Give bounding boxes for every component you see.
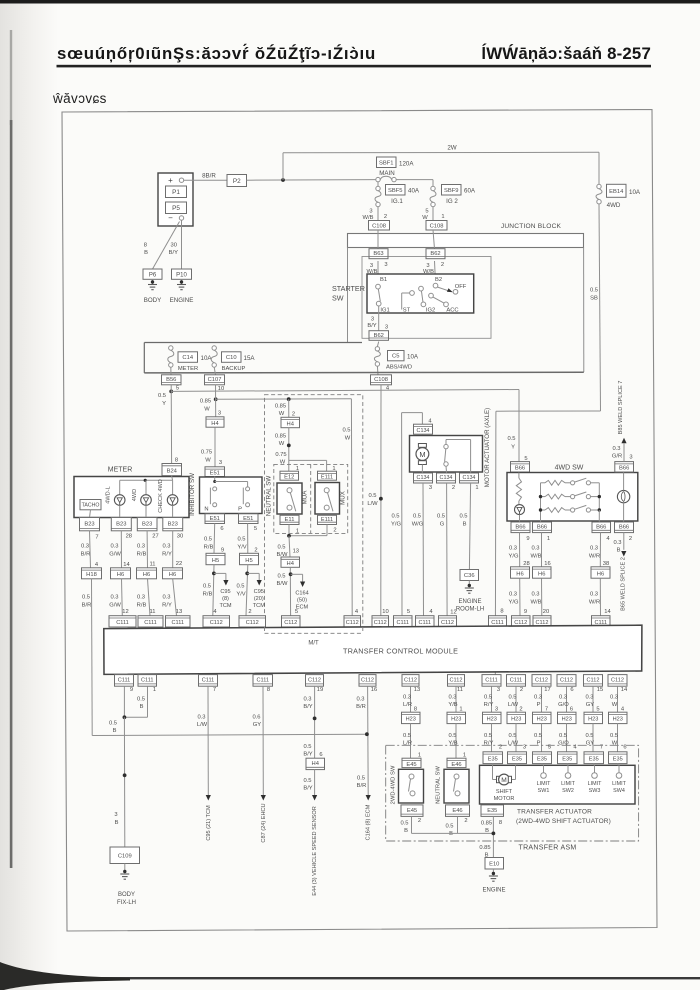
svg-text:15A: 15A [244, 355, 256, 362]
connector E46 (pin 2) [446, 805, 470, 817]
svg-text:0.5: 0.5 [137, 697, 145, 703]
svg-text:R/B: R/B [137, 603, 147, 609]
svg-text:ENGINE: ENGINE [482, 888, 505, 894]
svg-text:H5: H5 [212, 558, 219, 564]
svg-text:C111: C111 [116, 620, 129, 626]
ground merge wires 0.85 B [411, 816, 413, 833]
connector C108 (bottom, ABS/4WD feed) [371, 375, 392, 385]
svg-text:NEUTRAL SW: NEUTRAL SW [265, 476, 272, 516]
svg-text:C164: C164 [295, 591, 308, 597]
svg-text:R/Y: R/Y [162, 603, 172, 609]
connector E35 (pin 8, motor return) [481, 805, 504, 817]
svg-text:C112: C112 [611, 678, 624, 684]
svg-text:FIX-LH: FIX-LH [117, 900, 136, 906]
svg-text:7: 7 [213, 687, 216, 693]
wire 0.5 P below H23 [541, 724, 543, 752]
svg-text:3: 3 [371, 317, 374, 323]
svg-text:5: 5 [407, 609, 410, 615]
wire C111-9 / C111-1 ground join 0.5 B [123, 686, 125, 717]
svg-text:(20): (20) [254, 596, 264, 602]
neutral switch box [277, 483, 302, 514]
node junction at P2/2W riser [281, 178, 285, 182]
svg-text:0.5: 0.5 [413, 514, 421, 520]
svg-text:0.5: 0.5 [109, 721, 117, 727]
node branch to ECM [289, 572, 293, 576]
svg-text:B23: B23 [168, 521, 178, 527]
svg-text:W: W [279, 441, 285, 447]
svg-text:2: 2 [629, 536, 632, 542]
connector C134 (pin 3) [414, 473, 433, 483]
svg-text:16: 16 [544, 561, 550, 567]
svg-text:15: 15 [597, 687, 603, 693]
svg-text:30: 30 [177, 534, 183, 540]
svg-text:E45: E45 [406, 762, 416, 768]
wire B66-1 0.3 W/B [541, 533, 543, 567]
svg-text:SW1: SW1 [538, 788, 550, 794]
ground ENGINE ROOM-LH [468, 581, 470, 586]
wire H5 to C112-4 0.5 R/B [213, 565, 214, 616]
svg-text:20: 20 [543, 609, 549, 615]
svg-text:C112: C112 [346, 620, 359, 626]
svg-text:5: 5 [425, 209, 428, 215]
TCM top connector row [109, 616, 136, 627]
svg-text:2: 2 [452, 485, 455, 491]
svg-text:3: 3 [369, 209, 372, 215]
svg-text:E46: E46 [451, 762, 461, 768]
svg-text:10A: 10A [201, 355, 213, 362]
svg-text:2: 2 [418, 818, 421, 824]
wire B66-9 0.3 Y/G [519, 533, 521, 567]
ground ENGINE (transfer) [492, 869, 494, 873]
svg-text:0.85: 0.85 [479, 845, 490, 851]
svg-text:B: B [144, 250, 148, 256]
svg-text:LIMIT: LIMIT [537, 781, 551, 787]
transfer control module box [104, 625, 642, 674]
wire down to 4WD SW B66 pin5, 0.5 Y [518, 390, 520, 462]
svg-text:4WD SW: 4WD SW [555, 465, 584, 472]
inhibitor internal bus [214, 477, 216, 482]
wire H5 to C112-2 0.5 Y/V [246, 565, 248, 616]
connector H23 (7) [533, 712, 552, 723]
svg-text:IG.1: IG.1 [391, 198, 403, 205]
connector H23 (1) [447, 712, 466, 723]
svg-text:E35: E35 [589, 757, 599, 763]
svg-text:38: 38 [603, 561, 609, 567]
svg-text:6: 6 [570, 687, 573, 693]
wire riser to 2W line [282, 153, 284, 180]
svg-text:0.5: 0.5 [303, 778, 311, 784]
svg-text:11: 11 [149, 562, 155, 568]
svg-text:0.5: 0.5 [277, 545, 285, 551]
wire B63 to starter B1 [377, 261, 379, 284]
svg-text:sœuúņőŗ0ıũnŞs:ăɔɔvŕ́ ŏŹūŹţĩ: sœuúņőŗ0ıũnŞs:ăɔɔvŕ́ ŏŹūŹţĩɔ-ıŹıɔ̀ıu [57, 43, 376, 63]
svg-text:TACHO: TACHO [82, 503, 100, 509]
wire 0.3 L/R to H23 [410, 686, 412, 712]
svg-text:E45: E45 [407, 808, 417, 814]
svg-text:ENGINE: ENGINE [170, 297, 194, 304]
svg-text:H23: H23 [562, 717, 572, 723]
svg-text:9: 9 [526, 536, 529, 542]
wire SBF1 to SBF9 column [396, 179, 433, 181]
connector C108 (right, IG.2 feed) [426, 221, 447, 231]
svg-text:8: 8 [499, 820, 502, 826]
connector B23 x4 [80, 518, 100, 531]
svg-text:0.5: 0.5 [303, 744, 311, 750]
connector E45 (pin 2) [401, 805, 423, 817]
fuse C10 15A BACKUP [212, 346, 216, 350]
connector P6 [143, 269, 162, 279]
svg-text:C109: C109 [118, 853, 132, 859]
svg-text:ĺWẂāņăɔ:šaáň 8-257: ĺWẂāņăɔ:šaáň 8-257 [481, 43, 651, 63]
connector H23 (3) [483, 712, 502, 723]
svg-text:B/R: B/R [357, 783, 367, 789]
svg-text:(2WD-4WD SHIFT ACTUATOR): (2WD-4WD SHIFT ACTUATOR) [516, 818, 611, 825]
svg-text:C111: C111 [418, 620, 431, 626]
svg-text:H23: H23 [588, 717, 598, 723]
svg-text:C10: C10 [226, 355, 237, 361]
svg-text:11: 11 [457, 687, 463, 693]
svg-text:W: W [612, 702, 618, 708]
svg-text:1: 1 [418, 753, 421, 759]
svg-text:M/T: M/T [308, 641, 319, 647]
wire C134-1 0.5 B to C36 [469, 483, 470, 570]
svg-text:4WD-L: 4WD-L [106, 486, 112, 503]
svg-text:B85 WELD SPLICE 7: B85 WELD SPLICE 7 [618, 381, 624, 435]
svg-text:C112: C112 [361, 678, 374, 684]
lamp 4WD [141, 495, 152, 506]
svg-text:0.5: 0.5 [342, 428, 350, 434]
wire battery- diagonal to P6, 8 B [153, 222, 180, 270]
svg-text:H6: H6 [538, 571, 545, 577]
wire 0.3 GY to H23 [592, 686, 594, 712]
svg-text:0.3: 0.3 [531, 592, 539, 598]
limit switches SW1-SW4 [543, 765, 545, 772]
svg-text:1: 1 [153, 687, 156, 693]
svg-text:W/B: W/B [531, 554, 542, 560]
meter box [74, 477, 189, 518]
svg-text:5: 5 [548, 745, 551, 751]
svg-text:B: B [617, 548, 621, 554]
svg-text:G/O: G/O [558, 702, 569, 708]
transfer actuator box [480, 765, 636, 804]
svg-text:1: 1 [459, 707, 462, 713]
svg-text:0.3: 0.3 [590, 546, 598, 552]
svg-text:W/B: W/B [531, 600, 542, 606]
connector B66 (pin 2) [615, 522, 634, 533]
wire down 0.5 B/W to H4 [289, 536, 290, 557]
svg-text:8: 8 [267, 687, 270, 693]
svg-text:SB: SB [590, 296, 598, 302]
svg-text:0.5: 0.5 [237, 537, 245, 543]
connector H23 (6) [558, 712, 577, 723]
svg-text:0.5: 0.5 [610, 733, 618, 739]
fuse C14 10A METER [169, 346, 173, 350]
actuator switch [445, 440, 447, 445]
svg-text:ACC: ACC [446, 308, 458, 314]
svg-text:W: W [204, 407, 210, 413]
svg-text:SBF1: SBF1 [379, 160, 394, 166]
svg-text:0.3: 0.3 [509, 592, 517, 598]
svg-text:B23: B23 [84, 521, 94, 527]
wire EB14 down right margin [599, 204, 601, 411]
svg-text:1: 1 [441, 214, 444, 220]
wire 0.5 L/W to H23 [515, 686, 517, 712]
wire H18 down 0.5 B/R (to ECM run) [91, 579, 94, 736]
svg-text:C95: C95 [254, 589, 264, 595]
svg-text:0.5: 0.5 [204, 537, 212, 543]
svg-text:0.5: 0.5 [158, 393, 166, 399]
TCM bottom connector row [115, 675, 134, 687]
connector C108 (left, IG.1 feed) [369, 221, 390, 231]
svg-text:BODY: BODY [118, 892, 135, 898]
svg-text:TCM: TCM [253, 603, 265, 609]
svg-text:0.3: 0.3 [531, 546, 539, 552]
svg-text:R/B: R/B [204, 545, 214, 551]
connector C109 [110, 847, 140, 864]
wire 0.5 W drop to C112 pin4 [350, 399, 353, 616]
svg-text:P6: P6 [149, 272, 157, 278]
svg-text:0.5: 0.5 [236, 584, 244, 590]
svg-text:SW: SW [332, 294, 344, 303]
svg-text:C112: C112 [404, 678, 417, 684]
svg-text:INHIBITOR SW: INHIBITOR SW [189, 473, 196, 516]
connector E111 (bottom) [318, 515, 337, 524]
wire C5 to C108 bottom [376, 366, 379, 375]
svg-text:9: 9 [130, 687, 133, 693]
svg-text:2: 2 [248, 609, 251, 615]
wire down to C111 pin8 [494, 411, 497, 674]
svg-text:E44 (3) VEHICLE SPEED SENSOR: E44 (3) VEHICLE SPEED SENSOR [312, 806, 318, 896]
lamp 4WD-L [114, 495, 125, 506]
svg-text:ST: ST [403, 308, 411, 314]
connector B66 (pin 4) [592, 522, 611, 533]
svg-text:E11: E11 [285, 517, 295, 523]
svg-text:ŵăvɔvɕs: ŵăvɔvɕs [52, 91, 107, 106]
svg-text:0.6: 0.6 [252, 715, 260, 721]
wire SBF9 to C108 pin1 with 5 W [432, 207, 434, 221]
svg-text:C112: C112 [210, 620, 223, 626]
svg-text:3: 3 [384, 262, 387, 268]
svg-text:0.5: 0.5 [484, 695, 492, 701]
svg-text:7: 7 [95, 535, 98, 541]
svg-text:0.5: 0.5 [508, 733, 516, 739]
svg-text:R/B: R/B [137, 552, 147, 558]
wire H6 to C111-11 0.3 R/B [148, 579, 151, 616]
svg-text:R/Y: R/Y [484, 702, 494, 708]
svg-text:0.3: 0.3 [137, 544, 145, 550]
svg-text:9: 9 [221, 548, 224, 554]
svg-text:CHECK 4WD: CHECK 4WD [158, 479, 164, 513]
svg-text:10A: 10A [407, 354, 419, 361]
svg-text:8: 8 [175, 458, 178, 464]
4WD SW illumination lamp [617, 490, 629, 502]
svg-text:0.3: 0.3 [81, 544, 89, 550]
svg-text:E111: E111 [321, 517, 333, 523]
svg-text:NEUTRAL SW: NEUTRAL SW [436, 766, 442, 804]
svg-text:0.3: 0.3 [137, 595, 145, 601]
svg-text:2: 2 [464, 818, 467, 824]
2WD-4WD switch box [399, 769, 424, 803]
svg-text:B23: B23 [116, 521, 126, 527]
svg-text:TRANSFER CONTROL MODULE: TRANSFER CONTROL MODULE [343, 647, 458, 656]
svg-text:SW4: SW4 [613, 788, 625, 794]
svg-text:LIMIT: LIMIT [612, 781, 626, 787]
svg-text:STARTER: STARTER [332, 284, 365, 293]
svg-text:H6: H6 [117, 572, 124, 578]
header rule [57, 65, 652, 68]
svg-text:0.5: 0.5 [459, 514, 467, 520]
svg-text:0.85: 0.85 [275, 434, 286, 440]
wire 0.5 R/Y below H23 [491, 724, 493, 752]
svg-text:W: W [205, 458, 211, 464]
svg-text:1: 1 [463, 753, 466, 759]
svg-text:C112: C112 [374, 620, 387, 626]
svg-text:C95 (21) TCM: C95 (21) TCM [206, 805, 212, 841]
connector H4 (speed sensor) [306, 758, 325, 769]
fuse C5 10A ABS/4WD [377, 342, 378, 347]
svg-text:MUA: MUA [302, 490, 309, 505]
svg-text:0.3: 0.3 [356, 697, 364, 703]
wire battery- to P10, 30 B/Y [181, 220, 183, 269]
starter switch box [367, 274, 474, 313]
svg-text:7: 7 [545, 707, 548, 713]
wire E51-6 0.5 R/B [213, 524, 216, 554]
svg-text:C87 (24) EHCU: C87 (24) EHCU [261, 803, 267, 842]
wire B23-30 0.3 R/Y [172, 531, 174, 568]
wire B23-7 0.3 B/R [90, 531, 91, 568]
svg-text:TRANSFER ACTUATOR: TRANSFER ACTUATOR [517, 809, 592, 816]
svg-text:5: 5 [176, 386, 179, 392]
svg-text:1: 1 [547, 536, 550, 542]
wire B66-2 0.3 B down to B65 weld splice [623, 533, 625, 550]
svg-text:5: 5 [295, 609, 298, 615]
fuse strip box (C14/C10 row) [144, 342, 362, 344]
wire H6 to C111-12 0.3 G/W [121, 579, 124, 616]
connector C134 (pin 1) [460, 473, 479, 483]
svg-text:B63: B63 [373, 251, 383, 257]
svg-text:W: W [345, 436, 351, 442]
lamp CHECK 4WD [167, 495, 178, 506]
fusible link SBF1 MAIN 120A [377, 157, 397, 168]
svg-text:C95: C95 [220, 589, 230, 595]
svg-text:E35: E35 [562, 757, 572, 763]
svg-text:C111: C111 [491, 620, 504, 626]
junction block inner box around starter switch [362, 257, 491, 339]
wire H18 tacho run to ECM (horizontal) [92, 734, 367, 735]
node C107 junction [214, 397, 218, 401]
wire C134-3 0.5 W/G to C111-4 [422, 483, 425, 616]
svg-text:H6: H6 [597, 571, 604, 577]
wire H4 down 0.5 B/W [289, 567, 291, 615]
svg-text:Y: Y [162, 401, 166, 407]
svg-text:0.5: 0.5 [534, 733, 542, 739]
svg-text:B23: B23 [142, 521, 152, 527]
connector E51 (bottom N) [205, 514, 225, 524]
MUA/MUX switch box [315, 483, 340, 515]
svg-text:14: 14 [621, 687, 628, 693]
4WD switch box [507, 473, 638, 522]
svg-text:3: 3 [429, 485, 432, 491]
inhibitor switch box [200, 477, 263, 514]
svg-text:E35: E35 [512, 757, 522, 763]
svg-text:B56: B56 [166, 377, 176, 383]
svg-text:30: 30 [171, 243, 177, 249]
svg-text:2: 2 [499, 745, 502, 751]
svg-text:0.3: 0.3 [303, 697, 311, 703]
starter contact ST [410, 291, 415, 296]
svg-text:B/R: B/R [81, 552, 91, 558]
svg-text:12: 12 [122, 609, 128, 615]
svg-text:3: 3 [523, 745, 526, 751]
svg-text:8: 8 [144, 243, 147, 249]
svg-text:GY: GY [253, 722, 262, 728]
wire C134-2 0.5 G to C112-12 [446, 483, 449, 616]
svg-text:TRANSFER ASM: TRANSFER ASM [519, 845, 577, 852]
svg-text:10: 10 [382, 609, 388, 615]
svg-text:0.5: 0.5 [391, 514, 399, 520]
wire C108-4 down 0.5 L/W [380, 385, 382, 616]
svg-text:G/W: G/W [109, 552, 121, 558]
svg-text:SW2: SW2 [562, 788, 574, 794]
wire C10 to C107 [214, 367, 215, 375]
svg-text:C5: C5 [392, 354, 399, 360]
wire B62 to starter B2 [435, 261, 436, 283]
svg-text:H23: H23 [406, 717, 416, 723]
svg-text:0.5: 0.5 [448, 733, 456, 739]
ground BODY [152, 279, 154, 284]
svg-text:C108: C108 [372, 223, 386, 229]
wire E11/E111 merge [288, 525, 290, 536]
svg-text:R/Y: R/Y [162, 552, 172, 558]
svg-text:0.5: 0.5 [203, 584, 211, 590]
svg-text:P10: P10 [176, 272, 187, 278]
svg-text:P: P [238, 507, 242, 513]
svg-text:C111: C111 [144, 620, 157, 626]
svg-text:0.3: 0.3 [585, 695, 593, 701]
wire C111-7 0.3 L/W to C95 (21) TCM [207, 686, 209, 795]
svg-text:LIMIT: LIMIT [588, 781, 602, 787]
svg-text:C134: C134 [417, 428, 430, 434]
svg-text:M: M [419, 450, 425, 459]
svg-text:G: G [440, 522, 445, 528]
svg-text:C164 (8) ECM: C164 (8) ECM [366, 804, 372, 840]
svg-text:E12: E12 [284, 475, 294, 481]
node B56 junction [169, 390, 173, 394]
node H4 branch [287, 397, 291, 401]
svg-text:0.3: 0.3 [509, 546, 517, 552]
svg-text:E51: E51 [210, 516, 220, 522]
svg-text:H23: H23 [537, 717, 547, 723]
svg-text:G/W: G/W [109, 603, 121, 609]
wire H6 to C112-9 0.3 Y/G [519, 578, 521, 616]
svg-text:C111: C111 [256, 678, 269, 684]
svg-text:IG2: IG2 [426, 308, 435, 314]
ground ENGINE (battery) [181, 279, 183, 284]
fuse EB14 10A 4WD [598, 152, 600, 184]
svg-text:BODY: BODY [144, 297, 162, 304]
wire starter IG1 down 3 B/Y [378, 306, 380, 331]
dashed group box NEUTRAL SW / MUA / MUX [274, 464, 348, 533]
starter contact IG2 [419, 286, 424, 291]
svg-text:3: 3 [219, 460, 222, 466]
svg-text:B/W: B/W [277, 581, 288, 587]
svg-text:C36: C36 [464, 573, 475, 579]
svg-text:0.5: 0.5 [403, 733, 411, 739]
node branch to MUA/MUX [287, 444, 291, 448]
svg-text:SBF5: SBF5 [388, 188, 403, 194]
svg-text:W/R: W/R [589, 554, 600, 560]
svg-text:B1: B1 [380, 277, 387, 283]
